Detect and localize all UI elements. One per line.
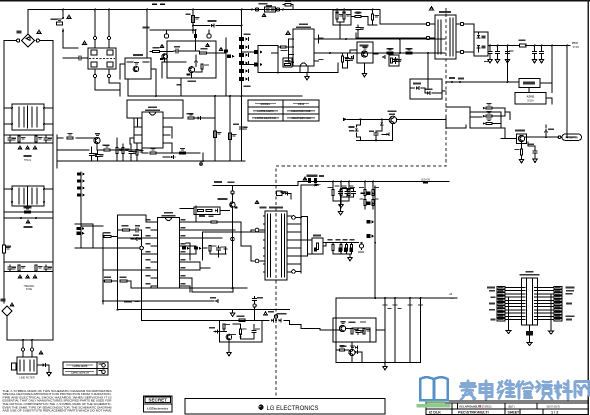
ground right leg: [549, 331, 554, 334]
wire r605: [352, 17, 368, 26]
wire sec pins right: [289, 232, 308, 272]
posistor terminal 2: [207, 34, 211, 38]
junction ring mid: [231, 191, 234, 194]
output return bus: [336, 362, 421, 364]
svg-text:LINE FILTER: LINE FILTER: [19, 376, 34, 380]
resistor R701: [67, 137, 73, 139]
ground center: [527, 343, 532, 346]
diode D871: [134, 238, 137, 241]
snubber R807: [211, 221, 217, 223]
resistor R703: [150, 152, 156, 154]
resistor R601: [280, 46, 286, 48]
bridge rectifier BD101: [22, 34, 35, 47]
T901 label: [439, 11, 451, 13]
capacitor C611: [374, 131, 378, 137]
connector P801 body: [522, 278, 538, 325]
option circle 2: [102, 370, 106, 374]
wire bridge output up: [27, 10, 29, 34]
capacitor C851: [252, 329, 256, 335]
resistor R101 across line: [25, 211, 31, 213]
wire VCC net: [314, 38, 445, 40]
relay contact: [133, 66, 139, 72]
IC601 left pins: [289, 38, 294, 40]
resistor R704: [116, 148, 118, 154]
warning triangles row 2: [18, 275, 22, 278]
diode D605: [382, 56, 385, 59]
P801 left outer labels: [487, 287, 495, 289]
T901 primary terminal 1: [426, 22, 429, 25]
diode D853: [278, 319, 281, 322]
snubber block outline: [167, 41, 216, 78]
wire bus left end: [127, 79, 129, 96]
wire LED-ON feed: [213, 182, 449, 186]
relay label: [133, 54, 143, 56]
AC inlet junctions: [22, 339, 24, 341]
resistor R605: [355, 15, 361, 17]
IC601 PWM IC: [293, 29, 314, 66]
svg-text:POWER-ON: POWER-ON: [565, 138, 578, 140]
wire shield down: [529, 336, 531, 343]
bridge AC terminals: [17, 39, 20, 42]
zener ZD101: [195, 59, 198, 62]
IC801 right pins: [180, 221, 187, 223]
lower pairs on rail: [77, 227, 81, 230]
varistor at bridge input: [17, 31, 22, 34]
wire 5V rail to connector: [566, 47, 568, 130]
bridge rectifier BD102: [2, 306, 12, 316]
resistor R615: [387, 52, 393, 54]
wire drain down: [192, 288, 233, 292]
warning triangle BD102: [10, 303, 14, 306]
wire relay feed: [120, 64, 125, 96]
snubber label2: [177, 84, 182, 86]
inductor L901: [519, 44, 526, 47]
wire IC831 internals: [333, 328, 385, 342]
T801 sec terminal 1: [292, 216, 296, 220]
node led rail: [332, 181, 334, 183]
LGElectronics sub box: [144, 404, 173, 412]
wire to ground node: [202, 153, 204, 161]
left rails IC601: [257, 46, 259, 73]
AC connector labels: [259, 3, 268, 5]
rc bottom: [333, 254, 352, 256]
Q831 cluster: [349, 350, 355, 356]
relay RL101 block: [125, 58, 151, 79]
resistor stack 2M rail: [80, 172, 82, 248]
ground opto: [364, 63, 366, 72]
resistor R804: [206, 209, 212, 211]
output rail 1: [384, 298, 386, 363]
LG logo dot: [258, 405, 263, 410]
IC601 right pin labels: [319, 37, 324, 38]
capacitor C806: [217, 246, 221, 252]
resistor R826: [364, 190, 366, 196]
wire T901 primary leads: [430, 24, 435, 38]
D852 label: [277, 313, 287, 315]
divider pair 6: [239, 77, 244, 81]
wire opto emitter: [521, 142, 523, 149]
wire opto leads: [350, 50, 378, 54]
LINE FILTER block: [17, 357, 37, 374]
connector link: [265, 7, 276, 12]
shunt regulator KIA431 box: [519, 79, 540, 88]
T801 label: [269, 206, 283, 208]
wire power-on net: [526, 46, 567, 138]
resistor R823: [332, 190, 334, 196]
ground IC601: [306, 73, 308, 75]
diode D854: [215, 300, 218, 303]
wire bulk cap: [241, 131, 243, 161]
feedback blobs: [449, 77, 455, 79]
transistor Q801: [230, 202, 235, 207]
title table right: [426, 401, 588, 415]
connector terminal 1: [255, 8, 258, 11]
wire primary rail: [232, 257, 234, 288]
R815 box: [312, 238, 323, 254]
wire cap row bus: [4, 135, 53, 186]
main B+ bus wire: [128, 95, 302, 97]
wire drive net: [318, 35, 320, 43]
inductor L102: [191, 16, 194, 23]
IC601 right pins: [315, 38, 319, 40]
wire rail drop2: [551, 46, 553, 93]
snubber label R615: [187, 80, 196, 82]
posistor terminal 1: [164, 34, 168, 38]
wire 431 links: [529, 83, 552, 104]
sheet right border: [588, 0, 589, 415]
wire R815 links: [308, 240, 359, 254]
driver box: [194, 207, 220, 215]
svg-text:IZ DLK: IZ DLK: [429, 411, 441, 415]
svg-text:1 / 2: 1 / 2: [551, 411, 558, 415]
ground led divider: [339, 203, 343, 208]
ground sec caps: [341, 197, 354, 210]
capacitor C703: [96, 153, 100, 159]
resistor R713: [214, 131, 217, 138]
diode D802 pair: [486, 115, 492, 117]
capacitor C607: [346, 57, 350, 63]
wire ps box internals: [224, 324, 254, 351]
diode D606: [416, 86, 419, 89]
wire relay out: [151, 69, 156, 96]
node fuse top: [62, 9, 64, 11]
junction ring drain: [231, 237, 235, 241]
LED-ON flag: [423, 181, 428, 183]
T901 windings: [438, 18, 453, 56]
wire inlet drops: [23, 340, 32, 348]
left mesh labels: [124, 301, 132, 303]
line filter transformer T102: [12, 186, 44, 206]
ps-on box: [220, 321, 263, 343]
wire bus left drop: [335, 298, 337, 318]
opto IC602 box: [357, 42, 373, 63]
wire ps-on bus 2: [118, 309, 290, 311]
svg-text:LG ELECTRONICS: LG ELECTRONICS: [267, 406, 319, 412]
LED-ON source blobs: [214, 181, 222, 183]
ground stub: [47, 371, 51, 376]
capacitor C904: [534, 46, 536, 51]
warning triangle IC601: [286, 31, 290, 34]
wire to AC bus bottom: [7, 303, 53, 340]
T901 secondary terminal 1: [460, 22, 463, 25]
warning triangle near fuse: [67, 15, 71, 18]
resistor R873: [105, 280, 112, 282]
wire q601 collector: [382, 124, 393, 141]
diode D604: [351, 56, 354, 59]
svg-text:SHEET: SHEET: [508, 411, 521, 415]
wire line nodes: [4, 211, 53, 213]
isolation boundary dashed line: [276, 8, 446, 398]
IC701 power IC: [142, 112, 163, 148]
line filter transformer T101: [12, 104, 44, 130]
wire q831: [336, 318, 362, 363]
resistor R874: [120, 280, 127, 282]
startup transistor Q701: [94, 137, 100, 143]
resistor R871: [104, 235, 111, 237]
zener pair ZD801: [224, 247, 227, 249]
vcc net stub: [343, 118, 347, 122]
resistor R852: [223, 324, 225, 329]
capacitor C853 ring: [253, 297, 257, 303]
wire regulator feed: [320, 329, 333, 331]
diode D102: [211, 24, 214, 27]
drive mesh parts: [182, 247, 186, 250]
connector shield pad: [526, 331, 533, 336]
main output bus +B: [336, 297, 457, 299]
diode D611: [380, 122, 383, 125]
divider blobs: [244, 33, 251, 35]
wire vcc bottom: [357, 139, 393, 141]
resistor R707: [136, 149, 138, 155]
T801 top label: [260, 207, 267, 209]
wire c816 top: [361, 242, 363, 244]
svg-text:LGElectronics: LGElectronics: [147, 407, 168, 411]
wire sec pin2: [289, 216, 302, 224]
resistor R611: [341, 56, 343, 62]
POWER-ON oval label: [562, 134, 582, 140]
resistor R617: [391, 58, 393, 63]
opto label: [360, 45, 369, 47]
IC701 right pins: [163, 117, 168, 119]
svg-text:AZ431: AZ431: [527, 95, 535, 99]
wire rect internals: [474, 24, 479, 52]
capacitor row 2: [8, 265, 12, 271]
schottky D813: [367, 220, 371, 224]
resistor R825: [348, 190, 350, 196]
resistor R603: [343, 13, 345, 19]
series element: [194, 34, 197, 38]
wire bridge right to inner rail: [39, 41, 53, 104]
wire aux out: [442, 90, 446, 92]
wire row2: [57, 149, 89, 151]
svg-text:PEC\STRK\MULTI: PEC\STRK\MULTI: [458, 411, 489, 415]
T801 right winding: [282, 214, 285, 277]
wire long 53 net: [272, 52, 446, 54]
node sec rail: [300, 217, 302, 219]
resistor R827: [372, 190, 374, 196]
sheet top border: [0, 0, 590, 2]
capacitor C903: [497, 46, 499, 51]
resistor jumper R613: [285, 3, 291, 6]
resistor R809: [209, 245, 211, 251]
gate wire: [186, 232, 265, 260]
wire T101 connections: [4, 103, 53, 135]
warning triangle rail: [219, 48, 223, 51]
fuse F101: [57, 22, 63, 25]
IC601 label: [299, 23, 308, 25]
warning triangle snubber: [160, 45, 164, 48]
warning triangle connector: [262, 14, 266, 17]
wire choke top leads: [95, 10, 109, 37]
KIA431 body: [523, 82, 535, 85]
transistor Q101: [162, 54, 168, 60]
output rail 4: [420, 298, 422, 363]
bus label specks: [152, 4, 157, 5]
wire to transformer primary: [241, 230, 255, 261]
IC801 controller: [158, 218, 180, 289]
IC701 label: [148, 107, 157, 109]
diode pair D831: [355, 346, 357, 349]
feedback resistor R712: [188, 117, 194, 119]
wire bridge left to left rail: [4, 41, 17, 104]
wire opto input: [501, 138, 517, 140]
aux rectifier box: [410, 79, 442, 99]
capacitor C604: [356, 26, 360, 32]
diode D851: [215, 330, 218, 333]
svg-text:LED-ON: LED-ON: [421, 178, 430, 181]
zener ZD601: [355, 128, 358, 131]
svg-text:AND USE OF SUBSTITUTE REPLACEM: AND USE OF SUBSTITUTE REPLACEMENT PARTS …: [3, 409, 112, 413]
IC831 body: [339, 325, 345, 331]
diode D852: [271, 319, 274, 322]
wire IC801 left nets: [118, 215, 234, 288]
wire rail links: [242, 46, 279, 65]
resistor R853: [239, 329, 241, 335]
wire left mesh: [75, 215, 142, 320]
capacitor C105: [224, 50, 228, 53]
warning triangles under caps: [18, 146, 22, 149]
diode D901: [477, 35, 480, 38]
svg-text:TH101: TH101: [24, 159, 32, 162]
resistor R829: [372, 200, 374, 206]
wire T901 primary feeds: [356, 10, 426, 39]
degauss wire: [150, 29, 196, 31]
sec caps cluster: [341, 188, 354, 190]
standby rectifier cluster: [474, 32, 488, 56]
ground left leg: [506, 331, 511, 334]
junction ring left: [140, 246, 144, 250]
POWER-ON terminal: [558, 136, 561, 139]
resistor R714: [229, 133, 232, 140]
wire mesh links: [182, 246, 226, 257]
common mode choke LF101: [88, 48, 116, 69]
wire T901 secondary leads: [456, 24, 474, 52]
ground c906: [533, 158, 537, 163]
sec output rail: [374, 186, 376, 298]
divider link pair 1: [254, 50, 259, 54]
wire IC601 bottom: [258, 63, 338, 73]
resistor R815: [316, 243, 318, 250]
wire inductor branch: [192, 10, 194, 34]
diode D801 pair: [486, 107, 492, 109]
blob r906: [528, 143, 534, 145]
wire row3: [57, 160, 245, 162]
cluster blobs: [335, 11, 339, 12]
capacitor C702: [90, 152, 94, 158]
inlet terminals: [21, 348, 24, 351]
divider pair 5: [239, 69, 244, 73]
wire feedback net: [446, 81, 519, 83]
IC801 left pins: [151, 221, 158, 223]
feedback pair box: [470, 112, 501, 128]
resistor R705: [180, 152, 186, 154]
diode D803 pair: [486, 122, 492, 124]
Q852 cluster: [274, 315, 277, 318]
fuse F102 on left rail: [3, 245, 6, 253]
wire ps-on bus 1: [103, 300, 214, 302]
resistor R604: [371, 14, 373, 20]
wire IC801 right mesh: [186, 206, 235, 292]
resistor R104: [153, 50, 160, 52]
warning triangle T901: [430, 7, 434, 10]
divider link pair 2: [254, 63, 259, 67]
snub box right: [389, 55, 399, 66]
capacitor C902: [489, 46, 491, 51]
svg-text:+B: +B: [449, 292, 453, 296]
warning triangle line: [26, 220, 30, 223]
wire left bus: [508, 297, 510, 330]
divider rail: [241, 10, 243, 162]
resistor R606: [285, 60, 291, 62]
main bottom primary wire: [131, 287, 247, 289]
wire terminals to line filter: [23, 351, 32, 357]
diode D607: [427, 91, 430, 94]
wire aux drop: [427, 53, 429, 79]
warning triangle near T801: [255, 201, 259, 204]
capacitor C907: [541, 46, 543, 51]
AZ431 box: [515, 93, 546, 105]
warning triangle ps: [264, 312, 268, 315]
snubber left down rail: [180, 78, 182, 96]
wire 5V rail drop: [507, 46, 509, 83]
watermark chinese text jiadian weixiu ziliao wang: [460, 381, 589, 400]
warning triangle choke: [83, 41, 87, 44]
clamp at boundary: [277, 191, 283, 196]
wire cluster feeds: [337, 10, 344, 39]
schottky D812: [367, 202, 371, 206]
svg-text:(RED): (RED): [485, 405, 492, 408]
resistor R105: [200, 52, 207, 54]
svg-text:25V: 25V: [450, 298, 454, 300]
wire aux internals: [410, 79, 442, 93]
capacitor C871: [134, 228, 140, 232]
wire IC701 bottom pins: [168, 127, 173, 153]
svg-text:6 2: 6 2: [479, 405, 484, 409]
diode D805: [215, 209, 217, 212]
fuse label: [24, 226, 33, 228]
driver under-labels: [199, 215, 205, 217]
capacitor C906: [533, 149, 537, 155]
resistor R905: [520, 149, 522, 155]
wire q601 emitter: [397, 118, 446, 120]
wire T102 connections: [4, 186, 53, 212]
capacitor C104: [174, 49, 180, 53]
thermistor TH101: [24, 155, 32, 157]
diode D199: [43, 363, 46, 366]
T801 pin ticks: [264, 215, 289, 217]
ground ps bus: [232, 310, 234, 312]
T801 sec terminal 2: [292, 270, 296, 274]
